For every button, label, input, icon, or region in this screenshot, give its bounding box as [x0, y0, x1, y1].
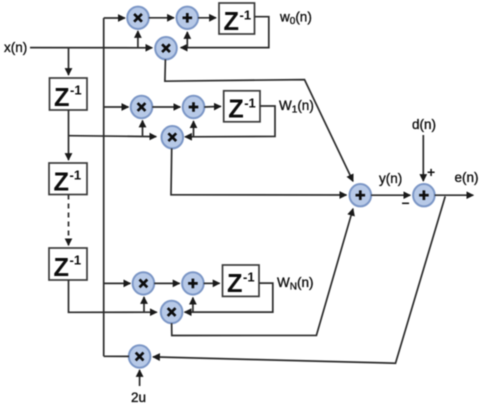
wire branch into tap0 multiplier M1 — [104, 17, 125, 19]
wire tapN product to output adder A4 — [172, 209, 353, 336]
wire branch into tapN multiplier M8 — [104, 282, 131, 284]
adder A2 — [183, 96, 205, 118]
wire A5 output e(n) — [435, 194, 474, 196]
delay block ZW1 — [224, 91, 260, 124]
svg-text:-1: -1 — [244, 95, 256, 110]
multiplier M4 — [131, 96, 153, 118]
wire tap0 x(n) branch up into M1 — [137, 31, 139, 48]
multiplier M1 — [127, 7, 149, 29]
wire branch up into adder A1 bottom — [186, 32, 188, 48]
svg-text:d(n): d(n) — [412, 117, 436, 132]
delay block Z1 — [50, 78, 88, 112]
wire A3 to delay ZWN — [204, 282, 220, 284]
svg-text:Z: Z — [224, 6, 240, 36]
multiplier M7 (2u) — [129, 345, 151, 367]
svg-text:y(n): y(n) — [379, 171, 402, 186]
svg-text:Z: Z — [54, 166, 70, 196]
wire tapN branch up into M8 — [143, 297, 145, 312]
adder A3 — [182, 272, 204, 294]
wire e(n) feedback down to multiplier M7 — [153, 196, 445, 363]
svg-text:-1: -1 — [70, 83, 82, 98]
wire delay Z1 to delay Z2 — [68, 110, 70, 160]
wire A1 to delay ZW0 — [198, 17, 216, 19]
wire M7 output to distribution vertical — [104, 355, 129, 357]
wire tap1 branch up into M4 — [142, 121, 144, 136]
multiplier M6 — [161, 301, 183, 323]
wire branch up into adder A2 bottom — [193, 121, 195, 136]
svg-text:W1(n): W1(n) — [279, 98, 314, 116]
svg-text:+: + — [427, 164, 435, 180]
wire ZWN feedback to M6 — [185, 283, 273, 312]
wire ZW0 feedback to M2 — [181, 17, 269, 48]
svg-text:Z: Z — [54, 252, 70, 282]
delay block ZW0 — [219, 3, 255, 36]
delay block Z2 — [49, 163, 87, 196]
svg-text:2u: 2u — [131, 390, 146, 405]
svg-text:Z: Z — [54, 82, 70, 112]
wire x(n) input line — [30, 47, 152, 49]
wire dashed delay Z2 to delay Z3 — [68, 195, 70, 240]
svg-text:x(n): x(n) — [4, 40, 27, 55]
wire M1 to adder A1 — [149, 17, 174, 19]
svg-text:w0(n): w0(n) — [279, 10, 312, 28]
wire branch into tap1 multiplier M4 — [104, 106, 129, 108]
wire arrow into delay Z3 — [68, 240, 70, 246]
svg-text:Z: Z — [227, 268, 243, 298]
wire M8 to adder A3 — [154, 282, 179, 284]
wire branch up into adder A3 bottom — [192, 298, 194, 313]
wire 2u into M7 — [139, 370, 141, 386]
adder A5 error summer — [413, 184, 435, 206]
wire tapN delayed signal from Z3 — [69, 280, 157, 312]
wire branch x(n) down to delay Z1 — [68, 48, 70, 75]
svg-text:e(n): e(n) — [455, 170, 479, 185]
wire A4 to adder A5 — [371, 194, 410, 196]
wire A2 to delay ZW1 — [204, 105, 221, 108]
svg-text:-1: -1 — [70, 168, 82, 183]
delay block ZWN — [223, 265, 260, 298]
multiplier M5 — [162, 126, 184, 148]
svg-text:−: − — [402, 195, 410, 211]
adder A4 output summer y(n) — [350, 184, 372, 206]
wire tap1 product to output adder A4 — [171, 148, 346, 195]
wire tap0 product to output adder A4 — [165, 59, 353, 181]
wire tap1 delayed signal — [69, 135, 157, 138]
svg-text:-1: -1 — [70, 253, 82, 268]
svg-text:-1: -1 — [243, 270, 255, 285]
wire d(n) into adder A5 — [422, 135, 424, 181]
delay block Z3 — [49, 248, 87, 282]
svg-text:Z: Z — [228, 94, 244, 124]
multiplier M8 — [133, 272, 155, 294]
adder A1 — [177, 7, 199, 29]
svg-text:-1: -1 — [240, 8, 252, 23]
wire M4 to adder A2 — [152, 106, 180, 108]
multiplier M2 — [155, 37, 177, 59]
wire 2u product distribution vertical — [103, 18, 105, 356]
wire ZW1 feedback to M5 — [185, 106, 275, 137]
